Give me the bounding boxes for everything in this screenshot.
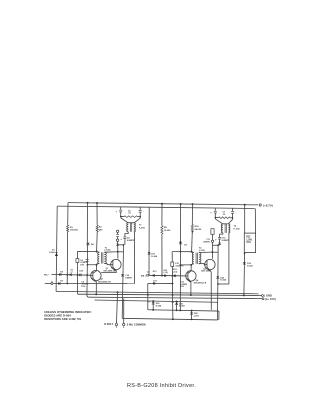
svg-text:(A+ 10V): (A+ 10V)	[265, 297, 276, 301]
svg-text:(-100): (-100)	[105, 250, 111, 252]
svg-text:R14: R14	[195, 225, 200, 228]
svg-text:+: +	[120, 238, 122, 241]
svg-text:RS-B-G208 Inhibit Driver.: RS-B-G208 Inhibit Driver.	[127, 383, 196, 389]
svg-text:D10: D10	[80, 270, 85, 272]
svg-text:68,000: 68,000	[195, 229, 202, 231]
svg-text:Q4: Q4	[196, 279, 200, 282]
svg-text:D-664: D-664	[179, 305, 185, 308]
svg-text:D8: D8	[60, 271, 63, 273]
svg-text:D17: D17	[153, 280, 158, 282]
svg-text:D-664: D-664	[220, 279, 227, 282]
svg-text:.01: .01	[128, 213, 132, 215]
svg-text:.01: .01	[223, 214, 227, 216]
svg-text:+2: +2	[70, 271, 73, 273]
svg-text:(-100): (-100)	[199, 250, 205, 252]
svg-text:D12: D12	[153, 271, 158, 273]
svg-text:C2: C2	[147, 272, 149, 274]
svg-text:F-27D: F-27D	[139, 227, 145, 229]
svg-text:+: +	[210, 212, 212, 215]
svg-text:MA 1: MA 1	[141, 274, 147, 277]
svg-text:10%: 10%	[246, 242, 251, 244]
svg-text:10,000: 10,000	[164, 230, 171, 232]
svg-text:D-662: D-662	[49, 252, 55, 254]
svg-text:680: 680	[99, 229, 103, 231]
svg-text:DEC2894-3B: DEC2894-3B	[104, 269, 116, 272]
svg-text:+: +	[215, 238, 217, 241]
svg-text:1,500: 1,500	[246, 239, 252, 241]
svg-text:R1: R1	[70, 227, 74, 229]
svg-text:F1: F1	[148, 302, 150, 304]
svg-text:10%: 10%	[180, 286, 184, 288]
svg-text:D5: D5	[184, 244, 187, 246]
svg-text:D-662: D-662	[247, 265, 254, 267]
svg-text:F2: F2	[172, 302, 174, 304]
svg-text:(-3V): (-3V)	[194, 315, 199, 317]
svg-text:R22: R22	[246, 237, 251, 239]
svg-text:T1: T1	[139, 225, 142, 227]
svg-text:D-664: D-664	[151, 255, 158, 258]
svg-text:.01MFD: .01MFD	[203, 241, 211, 243]
svg-text:D9: D9	[60, 280, 63, 282]
svg-text:Q2: Q2	[100, 279, 104, 281]
svg-text:6.8MFD: 6.8MFD	[222, 240, 230, 242]
svg-text:10%: 10%	[80, 264, 84, 266]
svg-text:DEC 2894: DEC 2894	[201, 270, 211, 273]
svg-text:+: +	[116, 210, 118, 213]
svg-text:D4: D4	[91, 243, 95, 246]
svg-text:-: -	[143, 211, 144, 214]
svg-text:R8: R8	[164, 227, 168, 229]
svg-text:10MFD: 10MFD	[125, 278, 132, 280]
svg-text:(-10): (-10)	[173, 272, 178, 274]
svg-text:T2: T2	[234, 226, 237, 228]
svg-text:R3: R3	[99, 227, 103, 229]
svg-text:6.8MFD: 6.8MFD	[127, 240, 135, 242]
svg-text:F-27D: F-27D	[234, 229, 240, 231]
svg-text:.001MFD: .001MFD	[175, 266, 184, 268]
svg-text:DEC2894-3 B: DEC2894-3 B	[98, 280, 111, 283]
svg-text:S MIL COMMON: S MIL COMMON	[127, 323, 146, 326]
svg-text:(+6.7V): (+6.7V)	[263, 203, 273, 207]
svg-text:D-664: D-664	[156, 304, 162, 307]
svg-text:RESISTORS ARE 1/4W; 5%: RESISTORS ARE 1/4W; 5%	[44, 317, 81, 321]
svg-text:-: -	[235, 212, 236, 215]
svg-text:100,000: 100,000	[70, 230, 79, 232]
svg-text:PA 7: PA 7	[44, 273, 49, 276]
svg-text:DEC2894-3 B: DEC2894-3 B	[194, 282, 207, 285]
svg-text:10%: 10%	[81, 286, 85, 288]
svg-text:(-10): (-10)	[164, 272, 169, 274]
svg-text:R 383 2: R 383 2	[104, 323, 113, 326]
